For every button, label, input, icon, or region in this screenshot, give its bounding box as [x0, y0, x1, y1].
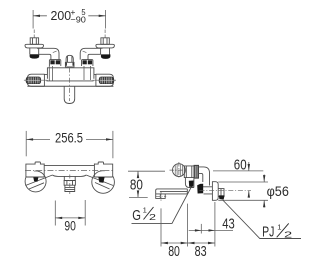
top view: left handle knurl — [26, 77, 41, 84]
front view: center outlet neck — [64, 176, 75, 180]
svg-text:43: 43 — [222, 216, 235, 232]
front view: left handle rect — [26, 162, 44, 177]
svg-text:80: 80 — [168, 243, 180, 260]
top view: body upper block — [47, 68, 94, 79]
top view: left wall flange centerline — [33, 30, 35, 38]
arrow bottom 80 — [137, 190, 139, 197]
svg-text:φ56: φ56 — [267, 183, 289, 199]
top view: left leg black seal — [30, 54, 40, 58]
front view: body centerline — [25, 170, 114, 172]
side view: spout outlet centerline — [156, 192, 166, 201]
side view: leg centerline — [200, 190, 252, 192]
dimension 90 extension lines — [55, 200, 85, 226]
top view: left wall nut — [30, 38, 38, 45]
top view: left handle tip tick — [24, 79, 26, 81]
svg-text:G: G — [132, 208, 141, 224]
front view: center outlet nut — [64, 181, 75, 186]
front view: left underside diagonals — [25, 175, 52, 189]
top view: right handle tip tick — [114, 79, 116, 81]
top view: right inlet nut on body — [82, 60, 93, 66]
front view: left black seal wedge — [33, 177, 38, 181]
dimension 80/83: line — [161, 242, 215, 244]
top view: left inlet nut on body — [49, 60, 60, 66]
side view: handle knob circle — [173, 164, 186, 177]
front view: right underside diagonals — [86, 175, 113, 189]
arrow right 256.5 — [106, 138, 113, 140]
top view: spout — [64, 86, 75, 103]
front view: right handle rect — [94, 162, 112, 177]
top view: center dome cap — [66, 55, 73, 62]
svg-text:PJ: PJ — [262, 223, 274, 240]
dimension 80 vertical: bottom extension — [129, 196, 148, 198]
top view: right handle knurl — [99, 77, 114, 84]
top view: inlet pipes inside body — [49, 66, 90, 81]
svg-text:60: 60 — [234, 158, 247, 174]
G 1/2 underline and leader — [132, 185, 193, 224]
dimension 43: extension line left — [200, 224, 202, 234]
svg-text:1: 1 — [143, 206, 147, 215]
top view: body main bar — [27, 74, 113, 86]
arrow left of 200 dim — [33, 15, 40, 17]
side view: handle knurl lines — [175, 164, 182, 176]
top view: right eccentric arm — [80, 48, 102, 59]
svg-text:1: 1 — [277, 222, 281, 231]
dimension 60: vertical line and arrows — [248, 162, 250, 198]
top view: right leg black seal — [101, 54, 111, 59]
dimension 80/83: extension lines — [161, 202, 215, 247]
top view: dome base nut — [65, 62, 74, 67]
svg-text:2: 2 — [149, 212, 156, 222]
dimension 200 +5/-90 extension line right — [105, 10, 107, 29]
dimension 60: top extension — [213, 170, 263, 172]
dimension phi56: vertical line and arrows — [263, 175, 265, 208]
top view: right wall nut — [101, 38, 109, 45]
front view: left flange circle — [25, 171, 46, 192]
svg-text:200: 200 — [51, 8, 72, 23]
side view: spout — [156, 189, 188, 199]
svg-text:83: 83 — [195, 243, 207, 260]
dimension 256.5 extension left — [25, 131, 27, 156]
top view: right arm elbow detail — [83, 51, 87, 53]
top view: right wall flange disc — [96, 44, 115, 48]
side view: wall flange disc — [212, 182, 218, 201]
side view: wall nut black wedge — [219, 195, 225, 199]
top view: right leg body — [101, 48, 110, 55]
side view: wall nut behind flange — [218, 189, 224, 197]
top view: right handle — [96, 74, 114, 86]
front view: body bottom bulge — [53, 175, 87, 176]
svg-text:90: 90 — [64, 218, 76, 234]
top view: left arm elbow detail — [53, 51, 57, 53]
dimension 256.5 extension right — [112, 131, 114, 158]
svg-text:2: 2 — [284, 229, 293, 239]
top view: spout centerline — [69, 68, 71, 102]
top view: left leg body — [30, 48, 39, 54]
side view: shower elbow black wedge — [189, 181, 194, 187]
front view: right flange circle — [92, 171, 115, 194]
front view: outlet centerline — [69, 175, 71, 195]
side view: S-union upper pipe and elbow — [199, 167, 210, 186]
svg-text:−90: −90 — [70, 14, 86, 24]
dimension 200 +5/-90 extension line left — [32, 10, 34, 29]
dimension 256.5 line — [26, 138, 113, 140]
arrow right of 200 dim — [99, 15, 106, 17]
top view: left wall flange disc — [25, 44, 44, 48]
dimension phi56: extension lines — [218, 182, 268, 200]
dimension 90 line — [55, 217, 85, 219]
arrow top 80 — [137, 171, 139, 178]
arrow left 256.5 — [26, 138, 33, 140]
arrow right 90 — [78, 217, 85, 219]
front view: right black seal wedge — [98, 177, 104, 183]
dimension 80 vertical: top extension — [128, 170, 165, 172]
svg-text:256.5: 256.5 — [55, 130, 83, 146]
dimension 200 +5/-90 dimension line — [33, 15, 106, 17]
dimension 80 vertical line — [137, 171, 139, 197]
dimension 43: line with arrows — [189, 229, 233, 231]
side view: body — [184, 166, 194, 178]
arrow left 90 — [55, 217, 62, 219]
top view: right wall flange centerline — [104, 30, 106, 38]
PJ 1/2 underline and leader — [223, 200, 301, 239]
top view: body centerline ticks — [41, 79, 99, 81]
svg-text:80: 80 — [130, 178, 143, 194]
side view: handle centerlines — [170, 162, 187, 178]
side view: inlet nut dark — [194, 165, 199, 178]
side view: S-union lower horizontal pipe — [203, 187, 213, 194]
side view: union black wedge — [197, 184, 203, 194]
top view: left handle — [27, 74, 44, 86]
front view: body bar top — [44, 164, 94, 166]
top view: left eccentric arm — [37, 48, 59, 59]
front view: center outlet thread — [65, 185, 75, 191]
side view: shower elbow below body — [185, 178, 194, 188]
